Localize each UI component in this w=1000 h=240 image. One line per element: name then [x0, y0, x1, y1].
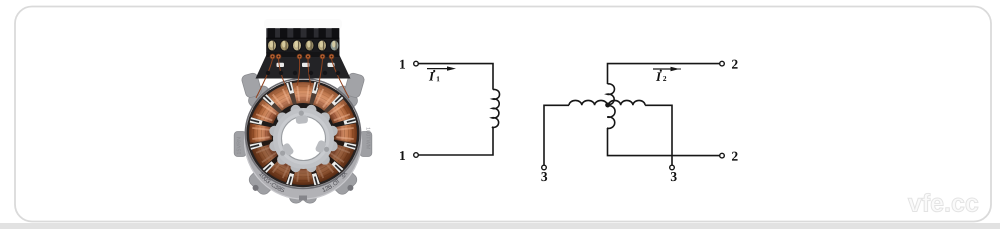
label 2 (bottom) — [732, 152, 738, 161]
motor stator photo — [234, 19, 372, 204]
current arrow I1 — [427, 66, 456, 70]
connector block body — [266, 28, 339, 57]
bracket shoulders behind block — [241, 72, 263, 99]
wire: right lead to terminal 3 — [645, 105, 672, 165]
current label I2 — [656, 70, 666, 81]
inductor winding L1 — [492, 89, 500, 127]
white slot liners — [343, 117, 356, 125]
copper coils (12) — [334, 123, 357, 144]
junction node of L2/L3 — [605, 103, 610, 108]
current arrow I2 — [653, 67, 681, 71]
inductor winding L2 lower half — [607, 106, 615, 129]
terminal 2 bottom circle — [720, 153, 725, 158]
terminal 2 top circle — [720, 61, 725, 66]
label 1 (top) — [400, 60, 405, 69]
label 3 (right) — [671, 172, 677, 181]
inductor winding L2 upper half — [607, 84, 615, 105]
label 2 (top) — [732, 60, 738, 69]
terminal 1 top circle — [414, 61, 419, 66]
terminal 3 left circle — [542, 165, 547, 170]
wire sleeves — [277, 63, 285, 67]
center hub — [327, 126, 337, 136]
stator laminations — [247, 80, 360, 187]
vfe.cc watermark — [908, 193, 978, 211]
wire: top lead to terminal 2 — [608, 64, 720, 84]
bottom gray strip — [0, 223, 1000, 229]
terminal 3 right circle — [670, 165, 675, 170]
stator housing mounting tabs — [330, 84, 360, 114]
terminal 1 bottom circle — [414, 153, 419, 158]
coil wire terminals — [270, 54, 275, 59]
neck detail holes — [266, 71, 270, 75]
inductor winding L3 right half — [609, 100, 646, 105]
wire: left lead to terminal 3 — [544, 105, 569, 165]
connector teeth — [268, 28, 275, 38]
stator housing outer ring — [244, 82, 362, 200]
housing bottom notch — [299, 196, 307, 201]
winding lead wires — [256, 59, 349, 98]
wire: bottom lead to terminal 2 — [608, 128, 720, 155]
label 1 (bottom) — [400, 151, 405, 160]
connector block neck — [256, 55, 351, 79]
hub keyed hole — [282, 117, 326, 161]
housing engraved text — [259, 172, 263, 176]
wire: bottom lead of winding 1 — [418, 127, 493, 155]
inductor winding L3 left half — [569, 100, 607, 105]
wire: top lead of winding 1 — [418, 64, 493, 90]
current label I1 — [429, 70, 440, 81]
shadow above connector — [264, 19, 342, 29]
label 3 (left) — [541, 172, 547, 181]
connector pins — [266, 39, 339, 53]
